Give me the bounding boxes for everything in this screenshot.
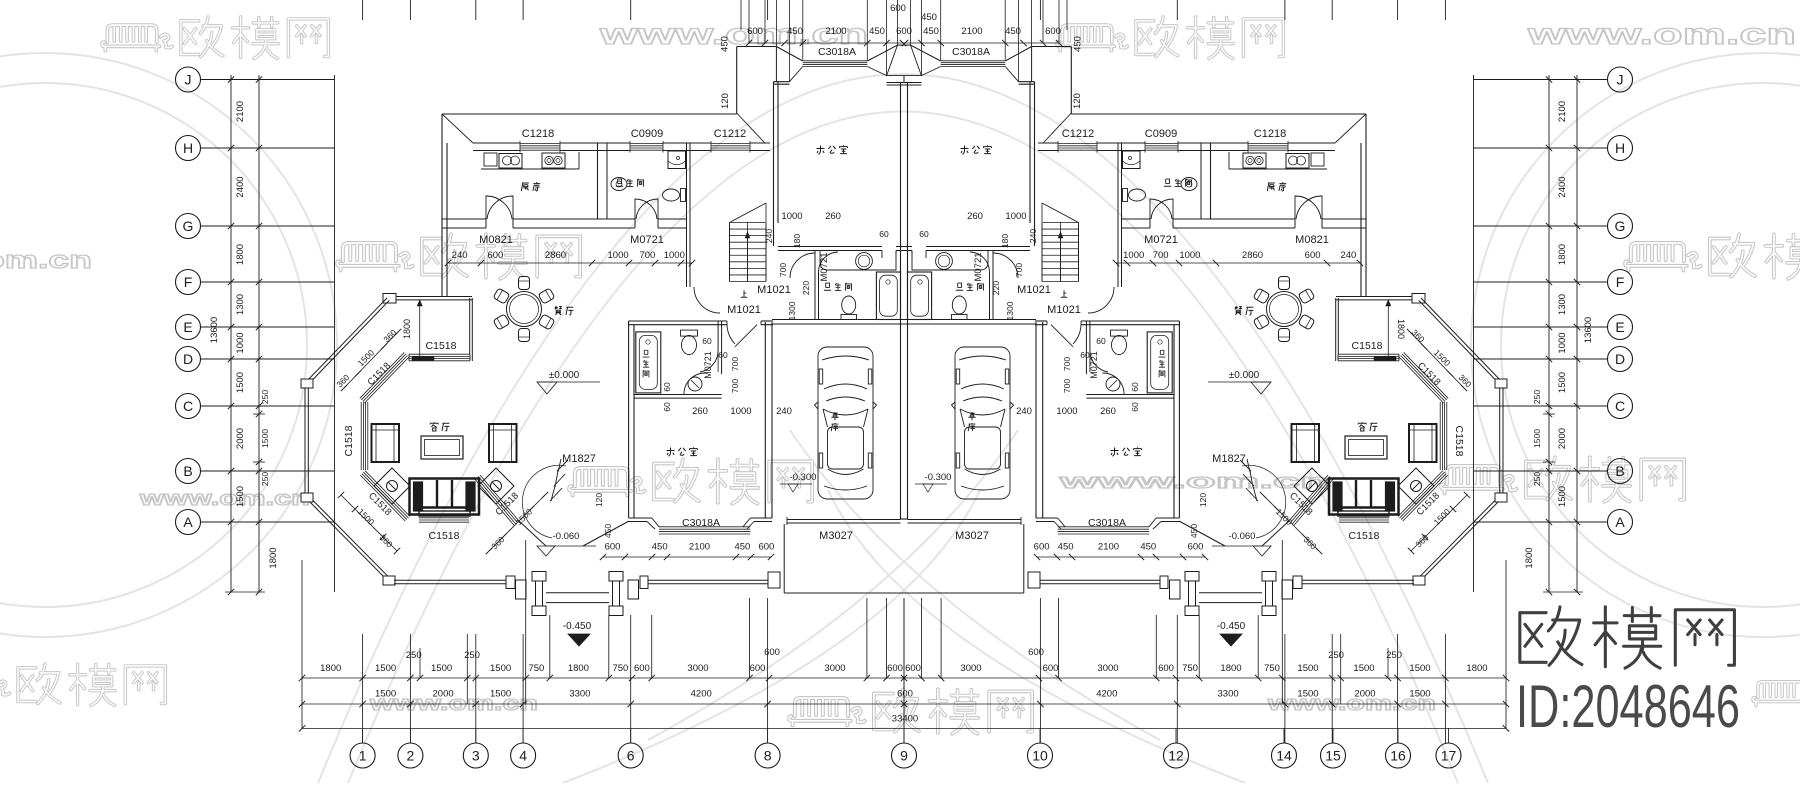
svg-text:600: 600 <box>887 663 903 674</box>
svg-text:450: 450 <box>603 524 613 538</box>
svg-text:600: 600 <box>634 663 650 674</box>
svg-text:1500: 1500 <box>1353 663 1374 674</box>
svg-text:260: 260 <box>1100 406 1116 417</box>
svg-text:1500: 1500 <box>375 689 396 700</box>
svg-text:3000: 3000 <box>960 663 981 674</box>
grid axis bubbles 1-17 bottom <box>350 743 375 768</box>
svg-text:1500: 1500 <box>260 429 270 448</box>
svg-text:6: 6 <box>627 747 635 763</box>
svg-text:2400: 2400 <box>1557 176 1568 197</box>
svg-text:60: 60 <box>1130 382 1140 392</box>
svg-text:M1827: M1827 <box>1212 453 1246 465</box>
floor plan line work: walls, windows, doors, stairs, fixtures, fences, dimension lines (left half, mirrored) <box>201 0 908 743</box>
svg-text:240: 240 <box>1340 250 1356 261</box>
svg-text:1500: 1500 <box>375 663 396 674</box>
svg-text:C1518: C1518 <box>1453 426 1465 457</box>
svg-text:600: 600 <box>487 250 503 261</box>
svg-text:600: 600 <box>1034 542 1050 553</box>
svg-text:600: 600 <box>758 542 774 553</box>
svg-text:120: 120 <box>1072 93 1083 109</box>
svg-text:C3018A: C3018A <box>952 46 990 58</box>
svg-text:250: 250 <box>260 390 270 404</box>
svg-text:1500: 1500 <box>1409 689 1430 700</box>
svg-text:om.cn: om.cn <box>0 247 92 274</box>
svg-text:3000: 3000 <box>1097 663 1118 674</box>
svg-text:700: 700 <box>730 357 740 371</box>
svg-text:1500: 1500 <box>431 663 452 674</box>
svg-text:±0.000: ±0.000 <box>1229 370 1260 381</box>
svg-text:M1021: M1021 <box>1017 284 1051 296</box>
svg-text:240: 240 <box>452 250 468 261</box>
svg-text:-0.060: -0.060 <box>1229 531 1256 542</box>
svg-text:600: 600 <box>1028 647 1044 658</box>
svg-text:1800: 1800 <box>568 663 589 674</box>
svg-text:600: 600 <box>1188 542 1204 553</box>
svg-text:M0821: M0821 <box>479 234 513 246</box>
svg-text:3: 3 <box>472 747 480 763</box>
svg-text:1000: 1000 <box>664 250 685 261</box>
svg-text:8: 8 <box>764 747 772 763</box>
svg-text:260: 260 <box>967 211 983 222</box>
svg-text:180: 180 <box>1000 234 1010 248</box>
svg-text:1000: 1000 <box>1005 211 1026 222</box>
svg-text:C: C <box>1615 398 1625 414</box>
svg-text:2000: 2000 <box>1354 689 1375 700</box>
svg-text:M0721: M0721 <box>1144 234 1178 246</box>
svg-text:M0721: M0721 <box>819 252 830 281</box>
svg-text:C1518: C1518 <box>426 340 457 352</box>
svg-text:700: 700 <box>639 250 655 261</box>
car in right garage <box>952 347 1014 499</box>
svg-text:H: H <box>1615 140 1625 156</box>
svg-text:120: 120 <box>720 93 731 109</box>
svg-text:2000: 2000 <box>235 428 246 449</box>
svg-text:250: 250 <box>1386 650 1402 661</box>
svg-text:G: G <box>183 218 194 234</box>
svg-text:450: 450 <box>923 26 939 37</box>
svg-text:-0.060: -0.060 <box>553 531 580 542</box>
svg-text:600: 600 <box>896 26 912 37</box>
svg-text:M3027: M3027 <box>955 530 989 542</box>
svg-text:33400: 33400 <box>892 714 918 725</box>
svg-text:1800: 1800 <box>1557 244 1568 265</box>
svg-text:1500: 1500 <box>1409 663 1430 674</box>
svg-text:C1218: C1218 <box>1254 128 1286 140</box>
svg-text:C: C <box>183 398 193 414</box>
svg-text:ID:2048646: ID:2048646 <box>1516 673 1740 740</box>
svg-text:C0909: C0909 <box>1145 128 1177 140</box>
svg-text:-0.300: -0.300 <box>790 472 817 483</box>
svg-text:60: 60 <box>662 402 672 412</box>
svg-text:B: B <box>1615 463 1624 479</box>
svg-text:M0721: M0721 <box>703 351 713 379</box>
svg-text:450: 450 <box>1073 36 1084 52</box>
svg-text:700: 700 <box>778 263 788 277</box>
svg-text:1800: 1800 <box>1396 319 1406 339</box>
svg-text:1000: 1000 <box>730 406 751 417</box>
svg-text:120: 120 <box>594 493 604 507</box>
svg-text:180: 180 <box>792 234 802 248</box>
svg-text:260: 260 <box>825 211 841 222</box>
svg-text:C3018A: C3018A <box>818 46 856 58</box>
svg-text:10: 10 <box>1032 747 1048 763</box>
svg-text:1300: 1300 <box>1005 301 1015 320</box>
svg-text:C1518: C1518 <box>429 530 460 542</box>
big site logo (CJK drawn as paths) + ID <box>1520 607 1735 668</box>
svg-text:250: 250 <box>260 472 270 486</box>
svg-text:450: 450 <box>652 542 668 553</box>
svg-text:H: H <box>183 140 193 156</box>
svg-text:4: 4 <box>519 747 527 763</box>
svg-text:750: 750 <box>528 663 544 674</box>
svg-text:1000: 1000 <box>608 250 629 261</box>
svg-text:M0721: M0721 <box>630 234 664 246</box>
svg-text:2100: 2100 <box>961 26 982 37</box>
svg-text:1000: 1000 <box>235 332 246 353</box>
svg-text:450: 450 <box>1140 542 1156 553</box>
svg-text:1500: 1500 <box>490 689 511 700</box>
svg-text:1300: 1300 <box>235 294 246 315</box>
svg-text:700: 700 <box>1062 379 1072 393</box>
svg-text:C0909: C0909 <box>631 128 663 140</box>
svg-text:700: 700 <box>730 379 740 393</box>
svg-text:1: 1 <box>359 747 367 763</box>
svg-text:4200: 4200 <box>1096 689 1117 700</box>
svg-text:450: 450 <box>1189 524 1199 538</box>
svg-text:C1212: C1212 <box>714 128 746 140</box>
svg-text:1300: 1300 <box>787 301 797 320</box>
svg-text:1500: 1500 <box>235 372 246 393</box>
svg-text:2000: 2000 <box>433 689 454 700</box>
svg-text:600: 600 <box>1045 26 1061 37</box>
svg-text:F: F <box>1616 274 1625 290</box>
svg-text:3300: 3300 <box>569 689 590 700</box>
svg-text:700: 700 <box>1062 357 1072 371</box>
car in left garage <box>815 347 877 499</box>
svg-text:C1518: C1518 <box>1349 530 1380 542</box>
svg-text:1500: 1500 <box>1557 372 1568 393</box>
svg-text:600: 600 <box>747 26 763 37</box>
svg-text:M1827: M1827 <box>562 453 596 465</box>
svg-text:B: B <box>183 463 192 479</box>
svg-text:M0721: M0721 <box>973 252 984 281</box>
svg-text:240: 240 <box>764 229 774 243</box>
svg-text:2100: 2100 <box>1098 542 1119 553</box>
svg-text:2100: 2100 <box>825 26 846 37</box>
svg-text:450: 450 <box>787 26 803 37</box>
svg-text:60: 60 <box>718 350 728 360</box>
svg-text:±0.000: ±0.000 <box>549 370 580 381</box>
svg-text:www.om.cn: www.om.cn <box>1526 18 1796 51</box>
svg-text:1800: 1800 <box>1220 663 1241 674</box>
svg-text:600: 600 <box>897 689 913 700</box>
svg-text:1500: 1500 <box>490 663 511 674</box>
svg-text:13600: 13600 <box>1583 317 1594 343</box>
svg-text:1800: 1800 <box>320 663 341 674</box>
svg-text:260: 260 <box>692 406 708 417</box>
svg-text:250: 250 <box>1328 650 1344 661</box>
svg-text:250: 250 <box>1532 472 1542 486</box>
grid axis bubbles J-A left/right <box>176 67 201 92</box>
svg-text:1800: 1800 <box>235 244 246 265</box>
svg-text:60: 60 <box>702 336 712 346</box>
svg-text:450: 450 <box>1058 542 1074 553</box>
svg-text:1800: 1800 <box>1466 663 1487 674</box>
svg-text:700: 700 <box>1153 250 1169 261</box>
svg-text:-0.300: -0.300 <box>925 472 952 483</box>
svg-text:60: 60 <box>919 229 929 239</box>
svg-text:220: 220 <box>991 281 1001 295</box>
svg-text:240: 240 <box>776 406 792 417</box>
svg-text:3000: 3000 <box>824 663 845 674</box>
svg-text:C1518: C1518 <box>343 425 355 456</box>
svg-text:M0721: M0721 <box>1089 351 1099 379</box>
svg-text:12: 12 <box>1168 747 1184 763</box>
svg-text:60: 60 <box>879 229 889 239</box>
svg-text:C1518: C1518 <box>1352 340 1383 352</box>
svg-text:www.om.cn: www.om.cn <box>138 488 310 510</box>
svg-text:600: 600 <box>750 663 766 674</box>
svg-text:14: 14 <box>1276 747 1292 763</box>
svg-text:3300: 3300 <box>1218 689 1239 700</box>
svg-text:2: 2 <box>407 747 415 763</box>
svg-text:1500: 1500 <box>1297 689 1318 700</box>
svg-text:600: 600 <box>890 3 906 14</box>
svg-text:E: E <box>183 319 192 335</box>
svg-text:1800: 1800 <box>268 547 279 568</box>
svg-text:1500: 1500 <box>1297 663 1318 674</box>
svg-text:C1218: C1218 <box>522 128 554 140</box>
svg-text:E: E <box>1615 319 1624 335</box>
svg-text:M0821: M0821 <box>1295 234 1329 246</box>
svg-text:600: 600 <box>605 542 621 553</box>
svg-text:1800: 1800 <box>1524 547 1535 568</box>
svg-text:-0.450: -0.450 <box>563 621 592 632</box>
svg-text:1000: 1000 <box>781 211 802 222</box>
svg-text:2860: 2860 <box>545 250 566 261</box>
svg-text:1500: 1500 <box>1532 429 1542 448</box>
svg-text:3000: 3000 <box>687 663 708 674</box>
svg-text:M1021: M1021 <box>1047 304 1081 316</box>
svg-text:www.om.cn: www.om.cn <box>1058 471 1330 493</box>
svg-text:750: 750 <box>1264 663 1280 674</box>
svg-text:A: A <box>183 514 193 530</box>
svg-text:600: 600 <box>1305 250 1321 261</box>
svg-text:600: 600 <box>1043 663 1059 674</box>
svg-text:1300: 1300 <box>1557 294 1568 315</box>
svg-text:2860: 2860 <box>1242 250 1263 261</box>
svg-text:C1212: C1212 <box>1062 128 1094 140</box>
svg-text:450: 450 <box>720 36 731 52</box>
svg-text:600: 600 <box>1158 663 1174 674</box>
svg-text:250: 250 <box>406 650 422 661</box>
svg-text:13600: 13600 <box>209 317 220 343</box>
svg-text:240: 240 <box>1016 406 1032 417</box>
svg-text:2100: 2100 <box>689 542 710 553</box>
svg-text:1500: 1500 <box>235 486 246 507</box>
svg-text:1500: 1500 <box>1557 486 1568 507</box>
svg-text:1800: 1800 <box>402 319 412 339</box>
svg-text:15: 15 <box>1325 747 1341 763</box>
svg-text:1000: 1000 <box>1123 250 1144 261</box>
svg-text:D: D <box>183 351 193 367</box>
svg-text:220: 220 <box>801 281 811 295</box>
svg-text:A: A <box>1615 514 1625 530</box>
svg-text:250: 250 <box>464 650 480 661</box>
svg-text:60: 60 <box>1130 402 1140 412</box>
svg-text:M3027: M3027 <box>819 530 853 542</box>
svg-text:C3018A: C3018A <box>1088 517 1126 529</box>
svg-text:F: F <box>184 274 193 290</box>
svg-text:4200: 4200 <box>691 689 712 700</box>
svg-text:1000: 1000 <box>1179 250 1200 261</box>
svg-text:450: 450 <box>1005 26 1021 37</box>
watermark logos and www.om.cn texts <box>102 17 328 58</box>
svg-text:17: 17 <box>1441 747 1457 763</box>
svg-text:600: 600 <box>905 663 921 674</box>
svg-text:240: 240 <box>1028 229 1038 243</box>
svg-text:2400: 2400 <box>235 176 246 197</box>
svg-text:1000: 1000 <box>1557 332 1568 353</box>
svg-text:2100: 2100 <box>1557 101 1568 122</box>
svg-text:600: 600 <box>764 647 780 658</box>
svg-text:450: 450 <box>734 542 750 553</box>
svg-text:D: D <box>1615 351 1625 367</box>
svg-text:9: 9 <box>900 747 908 763</box>
svg-text:750: 750 <box>1182 663 1198 674</box>
svg-text:2100: 2100 <box>235 101 246 122</box>
svg-text:G: G <box>1615 218 1626 234</box>
svg-text:16: 16 <box>1390 747 1406 763</box>
svg-text:450: 450 <box>869 26 885 37</box>
svg-text:J: J <box>1617 71 1624 87</box>
svg-text:-0.450: -0.450 <box>1217 621 1246 632</box>
svg-text:M1021: M1021 <box>727 304 761 316</box>
svg-text:700: 700 <box>1014 263 1024 277</box>
svg-text:J: J <box>185 71 192 87</box>
svg-text:60: 60 <box>662 382 672 392</box>
svg-text:M1021: M1021 <box>757 284 791 296</box>
svg-text:60: 60 <box>1096 336 1106 346</box>
svg-text:C3018A: C3018A <box>682 517 720 529</box>
svg-text:1000: 1000 <box>1056 406 1077 417</box>
svg-text:450: 450 <box>921 12 937 23</box>
svg-text:2000: 2000 <box>1557 428 1568 449</box>
svg-text:750: 750 <box>612 663 628 674</box>
svg-text:250: 250 <box>1532 390 1542 404</box>
svg-text:120: 120 <box>1198 493 1208 507</box>
